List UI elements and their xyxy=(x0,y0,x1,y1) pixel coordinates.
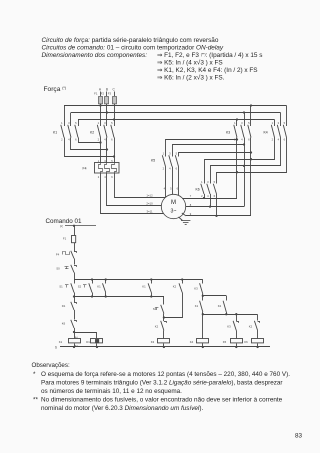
node right ladder xyxy=(202,295,204,297)
motor M 3~ xyxy=(161,194,185,218)
svg-text:6: 6 xyxy=(214,194,216,198)
svg-text:Circuitos de comando: 01 – ci: Circuitos de comando: 01 – circuito com … xyxy=(42,45,224,52)
node K1p2/colB xyxy=(106,148,108,150)
svg-text:6: 6 xyxy=(284,138,286,142)
wire K3 pole2 output to terminal 8 line xyxy=(244,138,246,207)
node line right xyxy=(203,314,258,316)
wire K5 pole2 to motor terminal 5 xyxy=(172,167,174,195)
top rail xyxy=(74,279,203,281)
node bus-L1/K3p3 xyxy=(250,104,252,106)
svg-text:F1: F1 xyxy=(94,92,98,96)
node K5p1/K3p1 xyxy=(236,138,238,140)
svg-text:3: 3 xyxy=(278,121,280,125)
svg-text:Dimensionamento dos componente: Dimensionamento dos componentes: xyxy=(42,52,148,59)
svg-text:2: 2 xyxy=(272,138,274,142)
svg-text:3~: 3~ xyxy=(171,209,177,215)
node R1/K3p3 xyxy=(250,158,252,160)
bus line L2 xyxy=(71,112,281,114)
svg-text:**: ** xyxy=(33,396,38,403)
wire to timer coil D1 xyxy=(75,333,97,339)
wire K5 pole2 supply xyxy=(173,145,245,157)
wire K1 pole2 to column B xyxy=(71,138,107,150)
svg-text:C: C xyxy=(112,88,115,92)
svg-text:4: 4 xyxy=(104,138,106,142)
svg-text:F3: F3 xyxy=(108,92,112,96)
svg-text:F1: F1 xyxy=(63,237,67,241)
svg-text:K4: K4 xyxy=(264,131,268,135)
ground symbol xyxy=(181,220,190,222)
svg-text:S: S xyxy=(55,346,57,350)
svg-text:2: 2 xyxy=(163,167,165,171)
svg-text:6: 6 xyxy=(248,138,250,142)
svg-text:S0: S0 xyxy=(56,267,60,271)
wire K1 pole3 to column A xyxy=(79,138,101,143)
svg-text:K1: K1 xyxy=(53,131,57,135)
svg-text:K6: K6 xyxy=(62,322,66,326)
svg-text:A2: A2 xyxy=(75,345,78,348)
svg-text:83: 83 xyxy=(295,433,303,440)
node rail/K1a xyxy=(105,278,107,280)
svg-text:Para motores 9 terminais triân: Para motores 9 terminais triângulo (Ver … xyxy=(41,380,283,387)
svg-text:Força (*): Força (*) xyxy=(44,86,66,93)
svg-text:S2: S2 xyxy=(78,285,82,289)
svg-text:2: 2 xyxy=(201,194,203,198)
wire F4 to motor line 1 xyxy=(115,174,166,198)
svg-text:2: 2 xyxy=(98,138,100,142)
svg-text:K3: K3 xyxy=(227,325,231,329)
svg-text:Comando 01: Comando 01 xyxy=(46,218,83,225)
node rail/K1b xyxy=(150,278,152,280)
svg-text:5: 5 xyxy=(75,121,77,125)
node K5p2/K3p2 xyxy=(243,143,245,145)
svg-text:1: 1 xyxy=(61,121,63,125)
svg-text:4: 4 xyxy=(241,138,243,142)
svg-text:⇒ K1, K2, K3, K4 e F4: (In / 2: ⇒ K1, K2, K3, K4 e F4: (In / 2) x FS xyxy=(157,67,258,74)
node line 1 xyxy=(74,296,164,298)
node rail/K2b xyxy=(181,278,183,280)
svg-text:4: 4 xyxy=(68,138,70,142)
node bus-L3/colC xyxy=(113,118,115,120)
svg-text:7: 7 xyxy=(190,194,192,198)
wire K4 pole1 output to K6 pole1 xyxy=(205,138,275,184)
svg-text:K1: K1 xyxy=(142,285,146,289)
svg-text:D1: D1 xyxy=(62,304,66,308)
node R2/K3p2 xyxy=(243,165,245,167)
svg-text:K3: K3 xyxy=(194,287,198,291)
aux contact K2 (NC) before K6 coil xyxy=(257,315,259,321)
svg-text:K2: K2 xyxy=(173,285,177,289)
node bus-L2/colB xyxy=(106,111,108,113)
bus line L3 xyxy=(78,119,275,121)
svg-text:K5: K5 xyxy=(223,340,227,344)
node K1p3/colA xyxy=(99,141,101,143)
svg-text:6: 6 xyxy=(176,167,178,171)
svg-text:6: 6 xyxy=(111,138,113,142)
svg-text:K6: K6 xyxy=(244,340,248,344)
svg-text:6: 6 xyxy=(75,138,77,142)
svg-text:K2: K2 xyxy=(155,325,159,329)
svg-text:⇒ K5: In / (4 x√3 ) x FS: ⇒ K5: In / (4 x√3 ) x FS xyxy=(157,59,223,67)
node bus-L1/colA xyxy=(99,104,101,106)
node bus-L3/K3p1 xyxy=(236,118,238,120)
svg-text:4: 4 xyxy=(169,167,171,171)
svg-text:5: 5 xyxy=(284,121,286,125)
svg-text:K1: K1 xyxy=(97,285,101,289)
svg-text:3=11: 3=11 xyxy=(146,210,153,214)
svg-text:4: 4 xyxy=(104,175,106,179)
svg-text:3: 3 xyxy=(207,180,209,184)
svg-text:4: 4 xyxy=(207,194,209,198)
svg-text:K2: K2 xyxy=(249,325,253,329)
svg-text:Observações:: Observações: xyxy=(32,362,70,369)
svg-text:1: 1 xyxy=(98,121,100,125)
svg-text:4: 4 xyxy=(278,138,280,142)
svg-text:5: 5 xyxy=(170,186,172,190)
bus line L1 xyxy=(64,105,287,107)
node K1p1/colC xyxy=(113,155,115,157)
wire K2 aux branch xyxy=(182,280,184,284)
node rail/S2 xyxy=(91,278,93,280)
svg-text:F4: F4 xyxy=(83,167,87,171)
node S3/K2branch xyxy=(163,316,165,318)
node K6p3/term9 xyxy=(216,194,218,216)
wire K3 pole3 output to terminal 9 line xyxy=(250,138,252,216)
pushbutton S3 chain xyxy=(152,297,164,305)
wire columns K2 to F4 xyxy=(100,138,102,164)
rail corner to K3 aux contact xyxy=(202,280,204,284)
node K6p2/term8 xyxy=(210,194,212,207)
svg-text:Circuito de força: partida sé: Circuito de força: partida série-paralel… xyxy=(42,37,219,44)
svg-text:K3: K3 xyxy=(226,131,230,135)
svg-text:2=10: 2=10 xyxy=(146,202,153,206)
svg-text:6: 6 xyxy=(111,175,113,179)
wire K5 pole1 to motor terminal 4 xyxy=(165,167,167,198)
svg-text:3: 3 xyxy=(104,121,106,125)
svg-text:5: 5 xyxy=(248,121,250,125)
svg-text:1: 1 xyxy=(234,121,236,125)
svg-text:2: 2 xyxy=(61,138,63,142)
node R3/K3p1 xyxy=(236,171,238,173)
svg-text:1: 1 xyxy=(201,180,203,184)
svg-text:3: 3 xyxy=(241,121,243,125)
aux contact K2 (right) xyxy=(226,296,228,301)
svg-text:*: * xyxy=(33,371,36,378)
svg-text:O esquema de força refere-se a: O esquema de força refere-se a motores 1… xyxy=(41,371,290,378)
svg-text:F4: F4 xyxy=(56,253,60,257)
svg-text:F2: F2 xyxy=(101,92,105,96)
node K5p3/K3p3 xyxy=(250,151,252,153)
svg-text:K3: K3 xyxy=(151,340,155,344)
node K1coil/D1coil xyxy=(73,331,75,333)
wire K5 pole3 to motor terminal 6 xyxy=(178,167,180,196)
wire K1 pole1 to column C xyxy=(65,138,115,157)
wire F4 to motor line 3 xyxy=(101,174,164,214)
motor ground stub xyxy=(179,217,183,221)
wire F4 to motor line 2 xyxy=(107,174,162,206)
svg-text:5: 5 xyxy=(176,151,178,155)
node bus-L2/K3p2 xyxy=(243,111,245,113)
aux contact K3 (NC) before K5 coil xyxy=(236,314,238,321)
node K6p1/term7 xyxy=(204,194,206,198)
svg-text:5: 5 xyxy=(214,180,216,184)
svg-text:M: M xyxy=(171,200,176,206)
svg-text:3: 3 xyxy=(169,151,171,155)
wire K4 pole3 output to K6 pole3 xyxy=(217,138,287,184)
svg-text:5: 5 xyxy=(111,121,113,125)
svg-text:os números de terminais 10, 11: os números de terminais 10, 11 e 12 no e… xyxy=(41,388,182,395)
svg-text:2: 2 xyxy=(98,175,100,179)
svg-text:K2: K2 xyxy=(90,131,94,135)
svg-text:K4: K4 xyxy=(190,340,194,344)
svg-text:3: 3 xyxy=(68,121,70,125)
svg-text:K6: K6 xyxy=(196,188,200,192)
svg-text:nominal do motor (Ver 6.20.3: nominal do motor (Ver 6.20.3 Dimensionan… xyxy=(41,405,203,412)
svg-text:⇒ K6: In / (2 x√3 ) x FS.: ⇒ K6: In / (2 x√3 ) x FS. xyxy=(157,73,225,81)
svg-text:1: 1 xyxy=(272,121,274,125)
svg-text:1: 1 xyxy=(163,151,165,155)
wire K4 pole2 output to K6 pole2 xyxy=(211,138,281,184)
wire K5 pole1 supply xyxy=(166,140,237,157)
wire K3 pole1 output to terminal 7 line xyxy=(236,138,238,199)
svg-text:K1: K1 xyxy=(195,304,199,308)
svg-text:No dimensionamento dos fusívei: No dimensionamento dos fusíveis, o valor… xyxy=(41,396,283,403)
svg-text:⇒ F1, F2, e F3 (**): (Ipartida: ⇒ F1, F2, e F3 (**): (Ipartida / 4) x 15… xyxy=(157,52,262,59)
svg-text:D1: D1 xyxy=(86,340,90,344)
svg-text:K2: K2 xyxy=(218,304,222,308)
wire K5 pole3 supply xyxy=(179,153,251,157)
svg-text:1=12: 1=12 xyxy=(146,194,153,198)
svg-text:S1: S1 xyxy=(59,285,63,289)
svg-text:K1: K1 xyxy=(59,340,63,344)
svg-text:K5: K5 xyxy=(151,159,155,163)
